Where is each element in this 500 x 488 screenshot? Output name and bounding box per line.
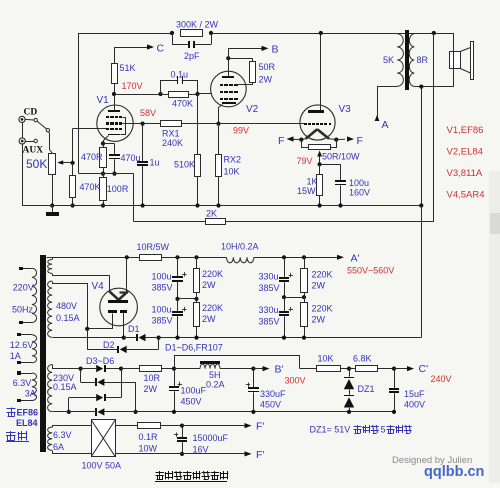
node B' arrow 300V output (253, 364, 283, 376)
resistor 51K (112, 47, 136, 94)
svg-text:5: 5 (381, 425, 386, 435)
capacitor 470u cathode bypass (103, 144, 141, 174)
svg-text:2W: 2W (144, 384, 158, 394)
node junction V3 filament right (334, 138, 338, 142)
svg-text:D3~D6: D3~D6 (86, 356, 114, 366)
node junction D3 out (119, 367, 123, 371)
diode D4 (81, 369, 136, 412)
wire 2K feedback rail y=221.5 (134, 221, 434, 223)
wire to V2 grid (198, 93, 213, 95)
svg-text:V4: V4 (92, 281, 105, 292)
svg-text:99V: 99V (233, 126, 249, 136)
svg-text:5H: 5H (209, 370, 221, 380)
resistor 6.8K (349, 353, 394, 371)
label DZ1 note (CJK) DZ1= 51V x5 series (310, 425, 412, 435)
svg-text:300K / 2W: 300K / 2W (176, 20, 219, 30)
node C arrow (240V supply feed) (114, 43, 164, 55)
svg-text:V4,5AR4: V4,5AR4 (447, 190, 485, 201)
svg-text:0.1R: 0.1R (139, 432, 159, 442)
node junction DZ1 bottom (347, 410, 351, 414)
node junction secondary top (432, 31, 436, 35)
wire ground bus to supply common (421, 206, 423, 338)
wire V1 grid to volume wiper (73, 129, 107, 163)
svg-text:385V: 385V (152, 316, 173, 326)
svg-text:2pF: 2pF (184, 51, 200, 61)
node junction 330u chain bottom (282, 336, 286, 340)
node F' arrow bottom heater output (245, 449, 265, 461)
node junction 100u chain top (175, 255, 179, 259)
svg-text:A': A' (351, 253, 360, 265)
wire ground bus y=205.5 (22, 205, 421, 207)
tube V3 811A (300, 33, 351, 140)
wire secondary bottom to ground bus (421, 87, 423, 206)
node junction V4 cathode left (85, 327, 89, 331)
label tube list V4,5AR4 (447, 190, 485, 201)
node junction RX2 bottom (216, 203, 220, 207)
resistor 10K (300, 353, 349, 371)
label 300V (285, 376, 306, 386)
resistor 470K coupling (161, 92, 194, 109)
svg-text:12.6V: 12.6V (10, 340, 34, 350)
diode D1 FR107 (124, 324, 159, 341)
node junction 1u bottom (141, 203, 145, 207)
node junction bus right end (392, 410, 396, 414)
resistor 0.1R/10W (115, 423, 182, 454)
winding 12.6V 1A (10, 333, 37, 364)
wire left feedback drop x=78.7 (78, 33, 80, 174)
svg-text:2W: 2W (312, 281, 326, 291)
svg-text:450V: 450V (181, 397, 202, 407)
node junction 470K left (158, 92, 162, 96)
node junction 220K chain bottom (194, 336, 198, 340)
capacitor 15uF/400V (389, 369, 425, 412)
svg-text:V3: V3 (339, 104, 352, 115)
svg-text:2W: 2W (202, 280, 216, 290)
resistor 50R/2W screen (228, 58, 275, 84)
node junction V4 anode tap (125, 255, 129, 259)
node A' arrow 550V output (337, 253, 360, 265)
jack AUX input (19, 138, 43, 156)
node junction V1 plate / 51K (112, 92, 116, 96)
node junction V2 cathode / RX2 (216, 122, 220, 126)
svg-text:V3,811A: V3,811A (447, 168, 483, 179)
wire RX1 to V2 cathode node (181, 123, 219, 125)
node junction 100R bottom (101, 203, 105, 207)
svg-text:15W: 15W (297, 186, 316, 196)
svg-text:10H/0.2A: 10H/0.2A (221, 242, 259, 252)
svg-text:V1: V1 (97, 95, 110, 106)
node junction 470K right / V2 grid (195, 92, 199, 96)
svg-text:50R/10W: 50R/10W (322, 152, 360, 162)
svg-text:8R: 8R (417, 55, 429, 65)
inductor 5H/0.2A choke (174, 361, 253, 390)
transformer T-PWR core (40, 255, 46, 452)
tube V4 5AR4 rectifier (88, 257, 138, 337)
node junction 15uF top (392, 367, 396, 371)
svg-text:B': B' (275, 364, 284, 376)
node junction 1u/RX1 (141, 122, 145, 126)
svg-text:2W: 2W (312, 315, 326, 325)
tube V1 EF86 (97, 94, 134, 144)
resistor RX2 10K (216, 124, 242, 206)
label 58V (140, 108, 156, 118)
potentiometer 50K volume (26, 154, 73, 206)
svg-text:D1: D1 (128, 324, 140, 334)
resistor 100R (100, 174, 129, 206)
svg-text:10K: 10K (318, 353, 334, 363)
speaker (450, 33, 474, 87)
svg-text:2W: 2W (202, 314, 216, 324)
svg-text:50K: 50K (26, 157, 47, 171)
capacitor 100u/385V upper (152, 257, 187, 299)
jack CD input (19, 108, 38, 123)
label tube list V1,EF86 (447, 125, 484, 136)
capacitor 1u (137, 124, 160, 206)
svg-text:385V: 385V (152, 283, 173, 293)
svg-text:170V: 170V (122, 81, 143, 91)
capacitor 330u/385V upper (259, 257, 294, 297)
diode D3 (81, 365, 121, 372)
tube V2 EL84 (211, 58, 259, 123)
capacitor 15000uF/16V (174, 426, 229, 455)
svg-text:100V 50A: 100V 50A (82, 461, 122, 471)
svg-text:100R: 100R (107, 184, 129, 194)
label tube list V3,811A (447, 168, 483, 179)
zener DZ1 chain (344, 369, 375, 412)
resistor 220K/2W lower bleeder (194, 299, 224, 338)
svg-text:100uF: 100uF (181, 386, 207, 396)
svg-text:100u: 100u (152, 272, 172, 282)
node junction 100uF top (172, 367, 176, 371)
svg-text:V2: V2 (246, 104, 259, 115)
svg-text:220K: 220K (202, 269, 223, 279)
node junction 330uF bottom (251, 410, 255, 414)
svg-text:0.1u: 0.1u (171, 70, 189, 80)
winding 6.3V 3A (13, 371, 37, 402)
node junction bridge in top (79, 367, 83, 371)
svg-text:385V: 385V (259, 317, 280, 327)
transformer T-OUT output transformer (321, 30, 454, 90)
resistor 10R/5W (137, 242, 170, 261)
svg-text:50R: 50R (259, 62, 276, 72)
svg-text:EL84: EL84 (16, 418, 38, 428)
svg-text:6.8K: 6.8K (353, 353, 372, 363)
svg-text:1A: 1A (10, 351, 21, 361)
svg-text:6.3V: 6.3V (53, 430, 72, 440)
svg-text:2W: 2W (259, 75, 273, 85)
node junction 15000uF top (180, 424, 184, 428)
svg-text:V2,EL84: V2,EL84 (447, 147, 483, 158)
wire speaker top to 2K feedback rail (433, 33, 435, 222)
wire coupling line y=94 (114, 94, 198, 96)
node junction 330u chain top (282, 255, 286, 259)
resistor 220K/2W upper right (301, 257, 333, 297)
node junction V4 cathode right / D1 (122, 336, 126, 340)
wire feedback top rail y=33 (79, 33, 454, 35)
resistor 510K (174, 94, 201, 206)
resistor 470K grid leak (70, 163, 101, 206)
resistor RX1 240K (143, 121, 183, 148)
svg-text:10R/5W: 10R/5W (137, 242, 170, 252)
svg-text:50Hz: 50Hz (12, 305, 34, 315)
node junction rectifier output (157, 336, 161, 340)
node junction B' / 330uF (251, 367, 255, 371)
svg-text:100u: 100u (152, 305, 172, 315)
svg-text:100u: 100u (349, 178, 369, 188)
label tube list V2,EL84 (447, 147, 483, 158)
regulator block 100V 50A (82, 420, 122, 471)
node junction V3 filament left (299, 138, 303, 142)
node B arrow (300V supply feed) (228, 44, 278, 59)
svg-text:F': F' (256, 449, 264, 461)
label 79V (297, 156, 313, 166)
svg-text:51K: 51K (120, 63, 136, 73)
node F' arrow top heater output (182, 421, 264, 433)
svg-text:15000uF: 15000uF (193, 433, 229, 443)
wire heater supply bus y=411.9 (136, 411, 394, 413)
label 99V (233, 126, 249, 136)
switch input selector (37, 121, 52, 153)
label D3~D6 (86, 356, 114, 366)
node C' arrow 240V output (394, 363, 428, 375)
label D1~D6,FR107 (165, 343, 223, 353)
svg-text:A: A (382, 119, 389, 131)
node junction 470K bottom (71, 203, 75, 207)
capacitor 100uF/450V (169, 369, 207, 412)
svg-text:EF86: EF86 (17, 408, 39, 418)
capacitor 330u/385V lower (259, 297, 294, 337)
winding 480V 0.15A HV (48, 281, 124, 338)
node junction 100uF bottom (172, 410, 176, 414)
node junction at 300K right (209, 31, 213, 35)
svg-text:385V: 385V (259, 283, 280, 293)
node junction secondary bottom (419, 85, 423, 89)
svg-text:330u: 330u (259, 272, 279, 282)
svg-text:D2: D2 (103, 340, 115, 350)
winding 5V V4 filament (48, 257, 110, 291)
potentiometer 50R/10W hum balance (302, 140, 361, 165)
resistor 300K/2W (176, 20, 219, 37)
svg-text:15uF: 15uF (404, 389, 425, 399)
label qqlbb.cn watermark (424, 464, 484, 480)
svg-text:300V: 300V (285, 376, 306, 386)
scrollbar strip right edge (489, 171, 500, 483)
label 550V~560V (347, 266, 394, 276)
svg-text:C': C' (419, 363, 429, 375)
diode D5 (69, 369, 122, 412)
capacitor 330uF/450V (246, 369, 286, 412)
svg-text:6A: 6A (53, 442, 64, 452)
label 240V (431, 374, 452, 384)
svg-text:79V: 79V (297, 156, 313, 166)
svg-text:F: F (278, 135, 284, 147)
svg-text:10K: 10K (224, 167, 240, 177)
ground symbol (46, 206, 59, 217)
svg-text:AUX: AUX (23, 146, 44, 156)
svg-text:0.15A: 0.15A (56, 313, 80, 323)
node junction 220K2 chain top (302, 255, 306, 259)
svg-text:450V: 450V (260, 400, 281, 410)
node junction ground bus right end (419, 203, 423, 207)
svg-text:5K: 5K (383, 55, 394, 65)
capacitor 2pF parallel branch (172, 33, 212, 61)
wire HV top rail y=257.3 (46, 257, 338, 259)
label Designed by Julien (392, 455, 472, 466)
svg-text:2K: 2K (206, 209, 217, 219)
svg-text:6.3V: 6.3V (13, 378, 32, 388)
node junction DZ1 top (347, 367, 351, 371)
label title note (CJK) mono design (155, 471, 228, 482)
svg-text:10W: 10W (139, 444, 158, 454)
resistor 2K feedback (206, 209, 226, 225)
node A arrow (to 550V supply) (375, 87, 389, 131)
svg-text:DZ1= 51V: DZ1= 51V (310, 425, 351, 435)
label 170V (122, 81, 143, 91)
winding 230V 0.15A (48, 365, 81, 412)
svg-text:330u: 330u (259, 305, 279, 315)
svg-text:1u: 1u (150, 158, 160, 168)
svg-text:CD: CD (24, 108, 38, 118)
svg-text:58V: 58V (140, 108, 156, 118)
node junction V3 plate top (319, 31, 323, 35)
label heater note (CJK) 供EF86 EL84 灯丝 (6, 408, 38, 442)
capacitor 100u/385V lower (152, 299, 187, 338)
resistor 1K/15W (297, 164, 323, 205)
svg-text:400V: 400V (404, 400, 425, 410)
node junction pot bottom (50, 203, 54, 207)
node junction at 300K left (170, 31, 174, 35)
node junction filter2 mid link (282, 295, 306, 299)
svg-text:470R: 470R (81, 152, 103, 162)
svg-text:470K: 470K (80, 182, 101, 192)
svg-text:220K: 220K (312, 270, 333, 280)
diode D2 FR107 (87, 329, 158, 353)
svg-text:3A: 3A (25, 389, 36, 399)
node junction 15000uF bottom (180, 452, 184, 456)
node junction 100u bottom (338, 203, 342, 207)
svg-text:0.15A: 0.15A (53, 382, 77, 392)
svg-text:RX2: RX2 (224, 155, 242, 165)
resistor 470R cathode (81, 141, 107, 173)
svg-text:B: B (272, 44, 279, 56)
wire feedback node y=173.6 (79, 174, 134, 222)
svg-text:470K: 470K (172, 99, 193, 109)
node junction cathode network (101, 172, 117, 176)
svg-text:1K: 1K (307, 176, 318, 186)
svg-text:10R: 10R (144, 373, 161, 383)
svg-text:480V: 480V (56, 301, 77, 311)
node junction filter mid link left (175, 297, 198, 301)
wire V1 screen to RX1 line (122, 123, 142, 125)
svg-text:DZ1: DZ1 (358, 384, 375, 394)
svg-text:160V: 160V (349, 188, 370, 198)
node junction 220K2 chain bottom (302, 336, 306, 340)
inductor 10H/0.2A choke (221, 242, 259, 263)
svg-text:V1,EF86: V1,EF86 (447, 125, 484, 136)
svg-text:510K: 510K (174, 160, 195, 170)
node junction 100u chain bottom (175, 336, 179, 340)
svg-text:220K: 220K (202, 303, 223, 313)
svg-text:qqlbb.cn: qqlbb.cn (424, 464, 484, 480)
svg-text:220V: 220V (13, 283, 34, 293)
svg-text:220K: 220K (312, 304, 333, 314)
wire DC mid rail y=337.6 (159, 337, 422, 339)
winding 6.3V 6A (48, 426, 92, 454)
node F arrow right (filament supply) (336, 135, 363, 147)
svg-text:330uF: 330uF (260, 389, 286, 399)
svg-text:0.2A: 0.2A (206, 380, 225, 390)
capacitor 100u/160V (320, 164, 370, 205)
resistor 220K/2W upper bleeder (194, 257, 224, 299)
winding 220V 50Hz primary (12, 267, 37, 324)
wire input ground chain (22, 123, 24, 206)
wire heater bottom (115, 453, 245, 455)
svg-text:240V: 240V (431, 374, 452, 384)
svg-text:550V~560V: 550V~560V (347, 266, 394, 276)
node F arrow left (filament supply) (278, 135, 301, 147)
wire bypass to 10K y=355.2 (175, 356, 300, 369)
svg-text:240K: 240K (162, 138, 183, 148)
node junction wiper/grid/470K (71, 161, 75, 165)
node junction D4 to bus (134, 410, 138, 414)
node junction V2 plate/screen feed (226, 56, 230, 60)
node junction 1K bottom (318, 203, 322, 207)
svg-text:C: C (157, 43, 165, 55)
wire grid line to V3 (219, 123, 305, 125)
resistor 220K/2W lower right (301, 297, 333, 337)
node junction hum pot wiper (318, 162, 322, 166)
node junction bridge in bottom (67, 410, 71, 414)
capacitor 0.1u (161, 70, 198, 95)
svg-text:F: F (357, 135, 363, 147)
svg-text:F': F' (256, 421, 264, 433)
resistor 10R/2W (121, 366, 174, 395)
diode D6 (54, 408, 136, 416)
svg-text:D1~D6,FR107: D1~D6,FR107 (165, 343, 223, 353)
node junction 510K bottom (195, 203, 199, 207)
node junction 220K chain top (194, 255, 198, 259)
